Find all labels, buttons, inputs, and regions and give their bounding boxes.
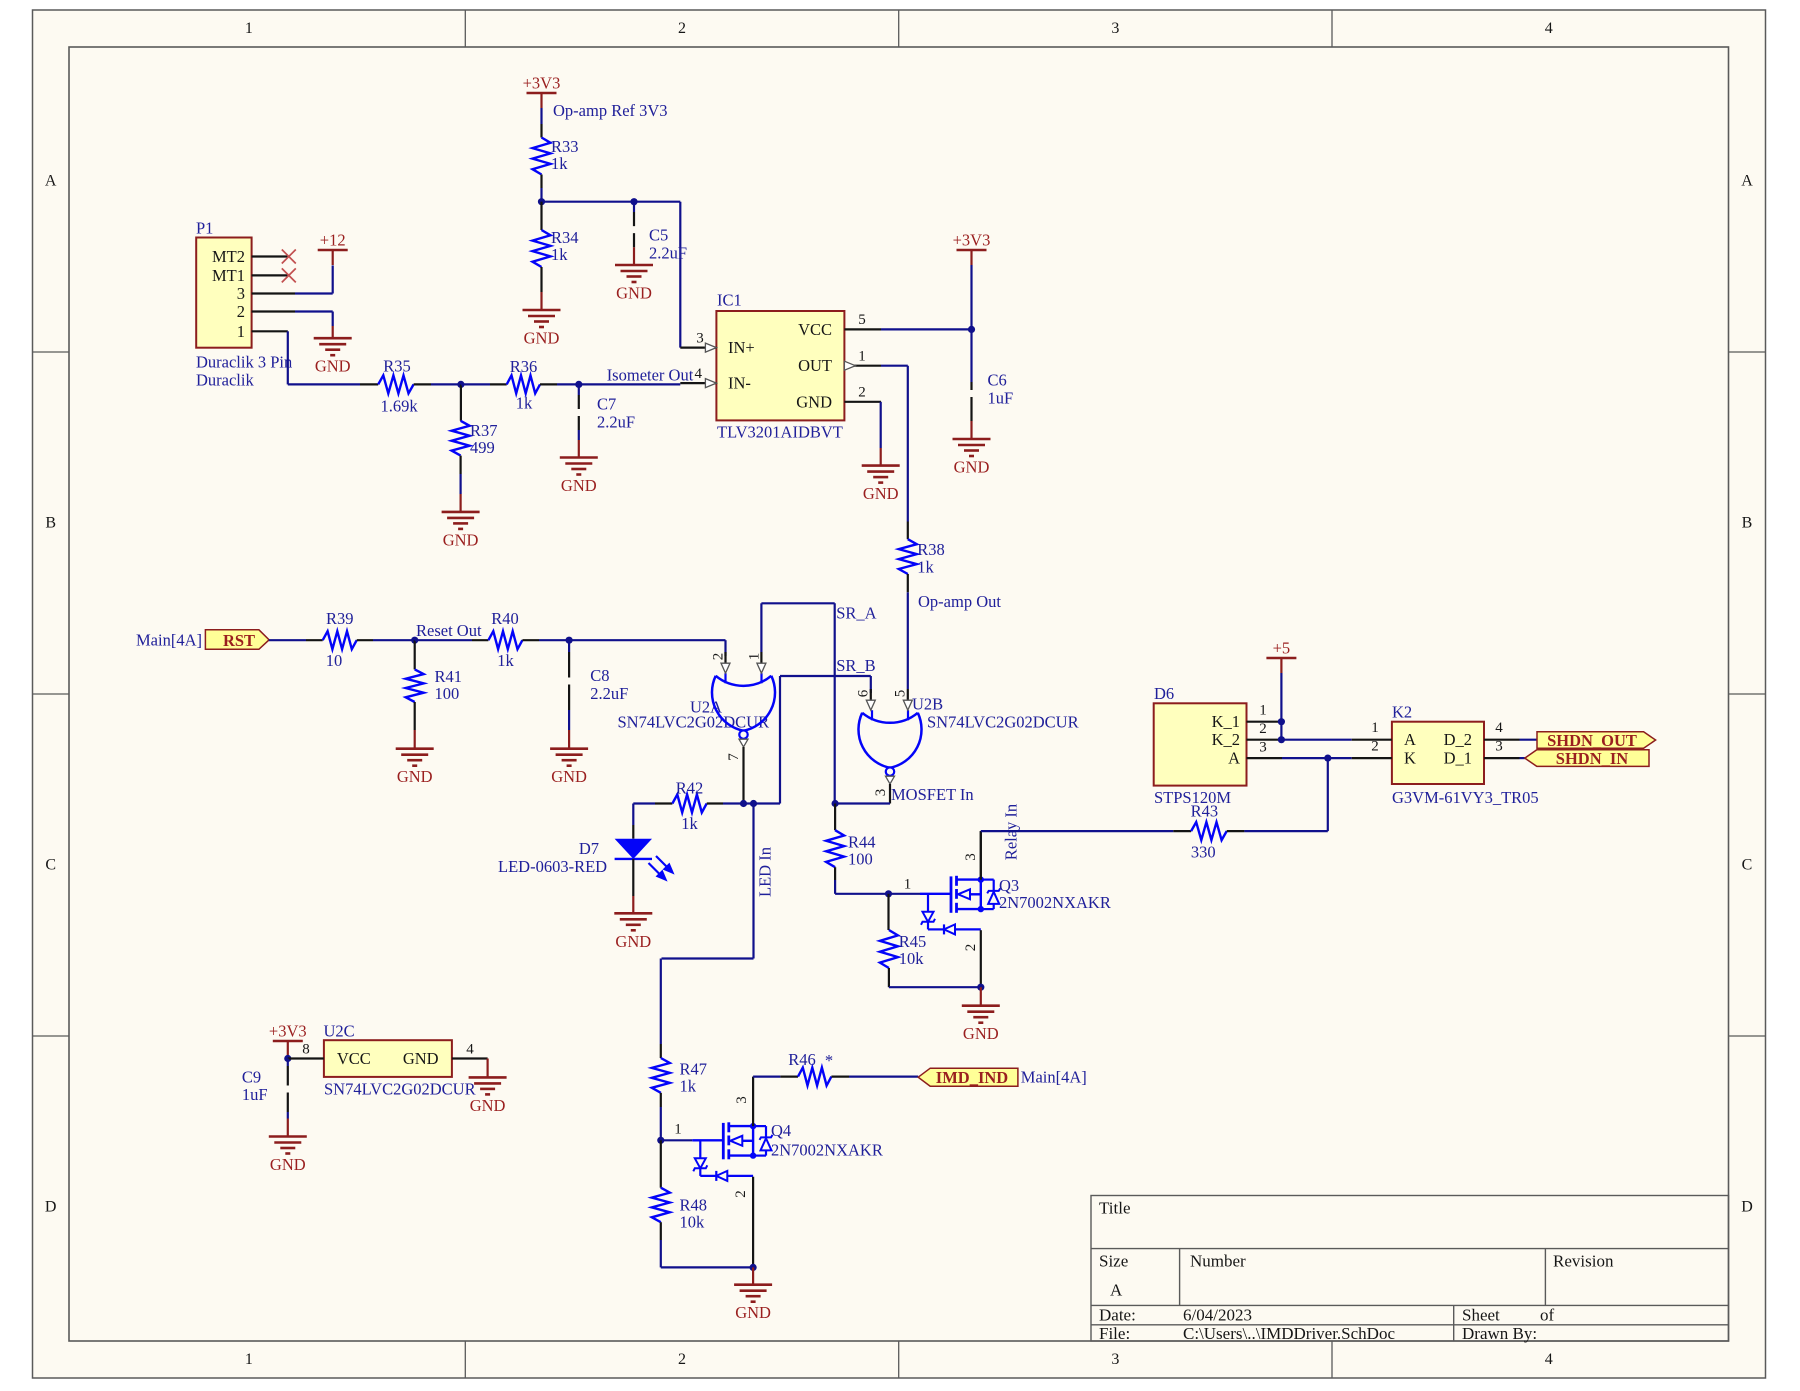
svg-text:TLV3201AIDBVT: TLV3201AIDBVT [717, 423, 843, 442]
svg-text:GND: GND [863, 484, 899, 503]
svg-text:GND: GND [470, 1096, 506, 1115]
svg-text:A: A [1110, 1281, 1123, 1300]
resistor R33 [533, 138, 551, 175]
node junction K_2 [1278, 736, 1285, 743]
svg-text:K_1: K_1 [1212, 712, 1240, 731]
resistor R40 [415, 639, 472, 641]
svg-text:C7: C7 [597, 395, 616, 414]
svg-text:1: 1 [858, 349, 866, 365]
svg-text:Op-amp Out: Op-amp Out [918, 592, 1001, 611]
svg-text:Sheet: Sheet [1462, 1306, 1500, 1325]
svg-text:SN74LVC2G02DCUR: SN74LVC2G02DCUR [618, 713, 770, 732]
transistor Q3 2N7002NXAKR [920, 893, 951, 895]
node junction Q3 source / GND [977, 984, 984, 991]
svg-text:499: 499 [470, 438, 495, 457]
svg-text:3: 3 [1111, 1351, 1119, 1368]
wire Relay In [980, 831, 982, 880]
svg-text:A: A [45, 173, 57, 190]
svg-text:10k: 10k [899, 949, 925, 968]
svg-text:Duraclik: Duraclik [196, 371, 254, 390]
capacitor C6 [970, 329, 972, 382]
pin 8 of U2C [288, 1057, 324, 1059]
svg-text:1k: 1k [551, 154, 568, 173]
svg-text:+3V3: +3V3 [523, 74, 561, 93]
svg-text:100: 100 [435, 684, 460, 703]
svg-text:10k: 10k [680, 1213, 706, 1232]
power port +3V3 (U2C) [273, 1040, 303, 1043]
capacitor C5 [630, 198, 637, 205]
wire R34 to GND [540, 267, 542, 292]
port SHDN_IN [1525, 750, 1649, 767]
wire C6 to GND [970, 421, 972, 439]
svg-text:1k: 1k [681, 814, 698, 833]
svg-text:C: C [1742, 857, 1753, 874]
svg-text:A: A [1228, 749, 1240, 768]
pin 2 of K2 [1352, 757, 1392, 759]
svg-text:GND: GND [796, 392, 832, 411]
pin 4 IN- [680, 382, 716, 384]
ground GND below D7 [614, 912, 652, 915]
svg-text:GND: GND [315, 357, 351, 376]
svg-text:GND: GND [524, 329, 560, 348]
svg-text:GND: GND [443, 530, 479, 549]
resistor R41 [414, 640, 416, 669]
svg-text:1k: 1k [516, 394, 533, 413]
svg-text:K: K [1404, 749, 1416, 768]
svg-text:3: 3 [696, 331, 704, 347]
svg-text:R40: R40 [491, 609, 519, 628]
pin 1 wire [252, 330, 288, 332]
svg-text:4: 4 [466, 1042, 474, 1058]
svg-text:2.2uF: 2.2uF [590, 684, 628, 703]
svg-text:G3VM-61VY3_TR05: G3VM-61VY3_TR05 [1392, 788, 1539, 807]
svg-text:GND: GND [735, 1303, 771, 1322]
wire C7 to GND [578, 430, 580, 440]
svg-text:SN74LVC2G02DCUR: SN74LVC2G02DCUR [927, 713, 1079, 732]
svg-text:D: D [45, 1199, 57, 1216]
node junction Q3 gate / R45 [885, 890, 892, 897]
svg-text:10: 10 [326, 651, 343, 670]
ground GND below C9 [269, 1135, 307, 1138]
wire R43 up to D6 A pin [1327, 758, 1329, 831]
ground GND below C6 [953, 438, 991, 441]
node junction Q4 gate / R48 [657, 1137, 664, 1144]
node junction C9/VCC [284, 1055, 291, 1062]
svg-text:1: 1 [245, 1351, 253, 1368]
svg-text:1uF: 1uF [242, 1085, 268, 1104]
svg-text:IN+: IN+ [728, 338, 755, 357]
svg-text:1k: 1k [551, 245, 568, 264]
ground GND below U2C [469, 1076, 507, 1079]
svg-text:2: 2 [1259, 721, 1267, 737]
svg-text:1k: 1k [497, 651, 514, 670]
wire R48 to Q4 source [661, 1266, 753, 1268]
svg-text:C: C [45, 857, 56, 874]
svg-text:+3V3: +3V3 [269, 1022, 307, 1041]
svg-text:3: 3 [734, 1096, 750, 1104]
svg-text:1: 1 [245, 20, 253, 37]
svg-text:B: B [1742, 515, 1753, 532]
pin 2 of U2A [724, 652, 726, 663]
svg-text:GND: GND [270, 1155, 306, 1174]
svg-text:A: A [1741, 173, 1753, 190]
wire to IN- [579, 383, 681, 385]
wire Q4 drain to R46 [753, 1075, 780, 1077]
svg-text:7: 7 [726, 753, 742, 761]
pin 5 of U2B [907, 592, 909, 689]
svg-text:D_1: D_1 [1444, 749, 1472, 768]
svg-text:+5: +5 [1273, 639, 1291, 658]
svg-text:+3V3: +3V3 [953, 231, 991, 250]
node junction A/R43 [1324, 755, 1331, 762]
svg-text:3: 3 [237, 284, 245, 303]
svg-text:5: 5 [858, 312, 866, 328]
pin 3 of D6 [1247, 757, 1283, 759]
power port +3V3 (op-amp ref) [527, 92, 557, 95]
svg-text:1uF: 1uF [988, 389, 1014, 408]
svg-text:R39: R39 [326, 609, 354, 628]
wire R45 to source node [889, 986, 981, 988]
svg-text:MOSFET In: MOSFET In [891, 785, 974, 804]
svg-text:GND: GND [616, 284, 652, 303]
svg-text:2: 2 [237, 302, 245, 321]
capacitor C9 [287, 1059, 289, 1067]
wire LED to GND [632, 859, 634, 896]
svg-text:C8: C8 [590, 666, 609, 685]
pin 4 of U2C [452, 1057, 488, 1059]
svg-text:R46: R46 [788, 1050, 816, 1069]
svg-text:GND: GND [963, 1024, 999, 1043]
svg-text:D7: D7 [579, 839, 599, 858]
svg-text:Number: Number [1190, 1252, 1246, 1271]
svg-text:2: 2 [733, 1190, 749, 1198]
resistor R48 [660, 1140, 662, 1187]
svg-text:Title: Title [1099, 1199, 1131, 1218]
svg-text:1k: 1k [680, 1077, 697, 1096]
wire OUT to R38 [881, 365, 908, 367]
transistor Q4 2N7002NXAKR [692, 1139, 723, 1141]
svg-text:D: D [1741, 1199, 1753, 1216]
ground GND below Q4 [734, 1283, 772, 1286]
wire U2C GND pin to ground [487, 1059, 489, 1078]
svg-text:4: 4 [695, 366, 703, 382]
svg-text:RST: RST [223, 631, 255, 650]
svg-text:R36: R36 [510, 357, 538, 376]
svg-text:MT2: MT2 [212, 247, 245, 266]
svg-text:OUT: OUT [798, 356, 832, 375]
node junction R33/R34/C5 [538, 198, 545, 205]
node junction VCC/C6 [968, 326, 975, 333]
ground GND below P1 pin 2 [314, 337, 352, 340]
pin 2 wire to GND [252, 310, 295, 312]
ground GND below Q3 [962, 1004, 1000, 1007]
wire LED In run [752, 804, 754, 959]
pin 3 of K2 [1484, 757, 1520, 759]
pin 3 output of U2B [889, 784, 891, 804]
svg-text:3: 3 [1259, 740, 1267, 756]
svg-text:Main[4A]: Main[4A] [1021, 1068, 1087, 1087]
svg-text:K2: K2 [1392, 703, 1412, 722]
ground GND below C5 [615, 264, 653, 267]
resistor R45 [887, 894, 889, 930]
pin 1 of K2 [1352, 739, 1392, 741]
node junction K_1 [1278, 718, 1285, 725]
svg-text:100: 100 [848, 849, 873, 868]
svg-text:5: 5 [893, 690, 909, 698]
node junction Q4 source / GND [750, 1264, 757, 1271]
svg-text:P1: P1 [196, 219, 213, 238]
wire R44 to Q3 gate [835, 893, 920, 895]
svg-text:LED In: LED In [756, 847, 775, 897]
wire R33 to node [540, 175, 542, 189]
title block [1091, 1196, 1729, 1342]
wire K_2 to K2 pin 1 [1281, 739, 1351, 741]
svg-text:GND: GND [561, 476, 597, 495]
power port +12 [318, 249, 348, 252]
ground GND below C8 [550, 747, 588, 750]
svg-text:LED-0603-RED: LED-0603-RED [498, 857, 607, 876]
svg-text:of: of [1540, 1306, 1555, 1325]
svg-text:MT1: MT1 [212, 266, 245, 285]
node junction SR_A/R44/MOSFET In [832, 800, 839, 807]
svg-text:4: 4 [1495, 720, 1503, 736]
pin 3 IN+ [680, 347, 716, 349]
svg-text:GND: GND [403, 1049, 439, 1068]
svg-text:SR_A: SR_A [836, 604, 876, 623]
svg-text:2: 2 [963, 944, 979, 952]
svg-text:Main[4A]: Main[4A] [136, 631, 202, 650]
svg-text:1: 1 [1371, 720, 1379, 736]
resistor R46 [798, 1068, 831, 1086]
svg-text:330: 330 [1191, 843, 1216, 862]
wire U2A out to R42 and branches [633, 802, 655, 804]
svg-text:R35: R35 [383, 357, 411, 376]
node junction R35/R36/R37 [457, 381, 464, 388]
svg-text:C:\Users\..\IMDDriver.SchDoc: C:\Users\..\IMDDriver.SchDoc [1183, 1324, 1395, 1343]
ground GND below R34 [523, 309, 561, 312]
resistor R36 [461, 383, 490, 385]
svg-text:Reset Out: Reset Out [416, 621, 482, 640]
pin 3 of Q3 (drain) [980, 831, 982, 880]
svg-text:R38: R38 [917, 540, 945, 559]
svg-text:2.2uF: 2.2uF [649, 244, 687, 263]
power port +3V3 above IC1 [957, 249, 987, 252]
wire node to C5 and IN+ [542, 201, 635, 203]
svg-text:K_2: K_2 [1212, 730, 1240, 749]
no-connect X on MT1 [282, 268, 296, 282]
wire R37 to GND [460, 456, 462, 474]
resistor R44 [834, 804, 836, 831]
svg-text:3: 3 [1111, 20, 1119, 37]
pin 1 OUT [844, 365, 881, 367]
svg-text:VCC: VCC [798, 320, 832, 339]
ground GND below R41 [396, 747, 434, 750]
svg-text:U2C: U2C [324, 1022, 355, 1041]
wire SR_A [761, 602, 834, 604]
svg-text:File:: File: [1099, 1324, 1130, 1343]
svg-text:*: * [825, 1051, 833, 1070]
ground GND below IC1 [862, 464, 900, 467]
port IMD_IND [918, 1068, 1018, 1086]
node junction R40/C8 [566, 637, 573, 644]
svg-text:2: 2 [858, 385, 866, 401]
wire IC1 GND pin to ground [880, 402, 882, 448]
power port +5 [1266, 657, 1296, 660]
svg-text:4: 4 [1545, 1351, 1553, 1368]
svg-text:2: 2 [1371, 739, 1379, 755]
svg-text:1: 1 [1259, 703, 1267, 719]
svg-text:6: 6 [856, 689, 872, 697]
svg-text:D_2: D_2 [1444, 730, 1472, 749]
pin 4 of K2 [1484, 739, 1520, 741]
wire to GND [752, 1267, 754, 1284]
svg-text:1: 1 [746, 653, 762, 661]
border column/row dividers [464, 10, 466, 47]
LED emission arrows [649, 856, 673, 880]
resistor R42 [672, 795, 706, 813]
svg-text:4: 4 [1545, 20, 1553, 37]
svg-text:IC1: IC1 [717, 291, 742, 310]
svg-text:C9: C9 [242, 1068, 261, 1087]
pin 3 of Q4 (drain) [752, 1077, 754, 1127]
svg-text:2N7002NXAKR: 2N7002NXAKR [771, 1141, 883, 1160]
svg-text:SHDN_OUT: SHDN_OUT [1547, 731, 1637, 750]
wire C9 to GND [287, 1112, 289, 1119]
wire C5 to GND [633, 247, 635, 265]
svg-text:B: B [45, 515, 56, 532]
resistor R37 [460, 384, 462, 420]
svg-text:1k: 1k [917, 557, 934, 576]
svg-text:2: 2 [711, 653, 727, 661]
svg-text:VCC: VCC [337, 1049, 371, 1068]
svg-text:1.69k: 1.69k [380, 397, 418, 416]
svg-text:Size: Size [1099, 1252, 1128, 1271]
svg-text:Isometer Out: Isometer Out [607, 366, 694, 385]
node junction Reset Out [411, 637, 418, 644]
pin 2 GND [844, 401, 881, 403]
no-connect X on MT2 [282, 250, 296, 264]
svg-text:Revision: Revision [1553, 1252, 1614, 1271]
capacitor C7 [578, 384, 580, 395]
pin 2 of D6 [1247, 739, 1282, 741]
resistor R43 [1173, 830, 1191, 832]
wire C8 to GND [568, 710, 570, 730]
pin MT2 [252, 255, 288, 257]
wire A to K2 pin 2 [1282, 757, 1352, 759]
resistor R35 [360, 383, 378, 385]
svg-text:SHDN_IN: SHDN_IN [1556, 749, 1629, 768]
ground GND below C7 [560, 456, 598, 459]
svg-text:U2B: U2B [912, 695, 943, 714]
svg-text:Op-amp Ref 3V3: Op-amp Ref 3V3 [553, 101, 668, 120]
svg-text:2.2uF: 2.2uF [597, 413, 635, 432]
pin MT1 [252, 274, 288, 276]
svg-text:Q4: Q4 [771, 1121, 791, 1140]
svg-text:3: 3 [963, 853, 979, 861]
svg-text:+12: +12 [320, 231, 346, 250]
svg-text:1: 1 [904, 877, 912, 893]
svg-text:Date:: Date: [1099, 1306, 1136, 1325]
svg-text:A: A [1404, 730, 1416, 749]
pin 5 VCC [844, 328, 881, 330]
port RST [205, 630, 269, 650]
ground GND below R37 [442, 511, 480, 514]
svg-text:C5: C5 [649, 226, 668, 245]
pin 3 wire to +12 [252, 292, 295, 294]
svg-text:3: 3 [873, 789, 889, 797]
port SHDN_OUT [1537, 732, 1656, 749]
resistor R39 [323, 631, 357, 649]
resistor R34 [540, 202, 542, 230]
pin 6 of U2B [870, 689, 872, 700]
wire +3V3 to VCC pin [287, 1056, 289, 1059]
node junction LED In branch [750, 800, 757, 807]
wire to GND [980, 987, 982, 1006]
svg-text:1: 1 [237, 322, 245, 341]
svg-text:STPS120M: STPS120M [1154, 788, 1231, 807]
resistor R47 [660, 1044, 662, 1058]
svg-text:2N7002NXAKR: 2N7002NXAKR [999, 893, 1111, 912]
node junction U2A out [740, 800, 747, 807]
svg-text:6/04/2023: 6/04/2023 [1183, 1306, 1252, 1325]
pin 1 of U2A [760, 603, 762, 652]
resistor R38 [907, 522, 909, 540]
svg-text:D6: D6 [1154, 684, 1174, 703]
wire +3V3 to VCC node [970, 265, 972, 329]
wire +5 to K_1/K_2 [1280, 673, 1282, 740]
pin 1 of D6 [1247, 721, 1282, 723]
svg-text:IMD_IND: IMD_IND [936, 1068, 1008, 1087]
node junction R36/C7/IN- [575, 381, 582, 388]
svg-text:SR_B: SR_B [836, 656, 875, 675]
capacitor C8 [568, 640, 570, 652]
svg-text:2: 2 [678, 1351, 686, 1368]
wire RST to R39 [269, 639, 306, 641]
svg-text:GND: GND [551, 767, 587, 786]
svg-text:Drawn By:: Drawn By: [1462, 1324, 1537, 1343]
svg-text:R42: R42 [676, 779, 704, 798]
svg-text:GND: GND [397, 767, 433, 786]
svg-text:GND: GND [615, 932, 651, 951]
svg-text:Duraclik 3 Pin: Duraclik 3 Pin [196, 353, 292, 372]
wire SR_B [780, 675, 871, 677]
wire to Q4 gate [661, 1139, 693, 1141]
svg-text:C6: C6 [988, 371, 1007, 390]
svg-text:SN74LVC2G02DCUR: SN74LVC2G02DCUR [324, 1080, 476, 1099]
wire Reset Out to U2A pin 2 [569, 639, 725, 641]
wire R41 to GND [414, 702, 416, 730]
svg-text:IN-: IN- [728, 374, 751, 393]
wire VCC to +3V3/C6 node [881, 328, 972, 330]
svg-text:3: 3 [1495, 739, 1503, 755]
svg-text:GND: GND [954, 458, 990, 477]
svg-text:1: 1 [674, 1122, 682, 1138]
pin 2 of Q3 (source) [980, 930, 982, 987]
pin 2 of Q4 (source) [752, 1177, 754, 1268]
LED D7 LED-0603-RED [632, 804, 634, 826]
wire MOSFET In [835, 802, 890, 804]
svg-text:2: 2 [678, 20, 686, 37]
wire +3V3 to R33 [540, 108, 542, 124]
svg-text:8: 8 [302, 1042, 310, 1058]
pin 7 output of U2A [742, 747, 744, 804]
